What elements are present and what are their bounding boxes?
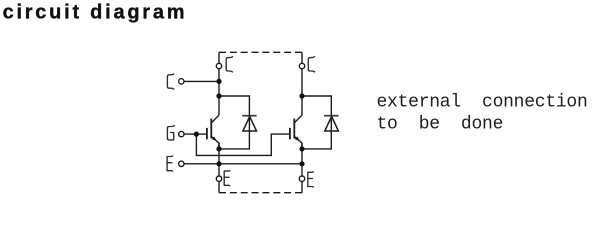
node: external C joins left collector <box>216 79 221 84</box>
terminal external C <box>179 79 184 84</box>
terminal E1 (module bottom left) <box>216 176 221 181</box>
terminal E2 (module bottom right) <box>299 176 304 181</box>
terminal external G <box>179 131 184 136</box>
Q1 emitter arrow <box>212 136 217 141</box>
terminal external E <box>179 161 184 166</box>
transistor Q1 (left IGBT) <box>207 115 219 149</box>
node: gate split G <box>194 132 199 137</box>
label C at terminal C2 <box>308 57 314 72</box>
wire: bottom-right stub from terminal E2 to box edge <box>301 181 303 192</box>
wire: diode D2 bottom branch <box>302 131 331 149</box>
label G (external) <box>167 126 174 140</box>
wire: external C lead <box>184 80 219 82</box>
Q1 body bar <box>210 119 212 139</box>
label C at terminal C1 <box>226 57 232 72</box>
wire: top-left corner stub to terminal C1 <box>218 52 220 63</box>
diode D1 (left freewheel diode) <box>242 110 256 131</box>
module outline dashed box top edge <box>219 51 302 53</box>
diode D2 (right freewheel diode) <box>324 110 338 131</box>
wire: left collector vertical <box>218 69 220 115</box>
labels drawn as technical-font glyphs <box>167 57 314 187</box>
node: D2 top junction <box>299 93 304 98</box>
wire: external E rail <box>184 163 302 165</box>
wire: diode D1 top branch <box>219 96 249 110</box>
wire: bottom-left stub from terminal E1 to box edge <box>218 181 220 192</box>
wire: gate link from node G down and across to gate of Q2 <box>196 134 290 155</box>
label C (external) <box>167 74 173 89</box>
svg-text:external connection: external connection <box>377 92 588 112</box>
node: D1 top junction <box>216 93 221 98</box>
wire: diode D1 bottom branch <box>219 131 249 149</box>
D2 vertical through symbol <box>330 110 332 131</box>
terminal C2 (module top right) <box>299 63 304 68</box>
terminal C1 (module top left) <box>216 63 221 68</box>
label E (external) <box>167 156 173 171</box>
Q1 emitter diagonal <box>211 136 219 149</box>
Q2 gate bar <box>289 128 291 139</box>
label E at terminal E2 <box>308 172 314 187</box>
node: Q2 emitter / D2 anode <box>299 146 304 151</box>
D1 triangle <box>243 116 257 131</box>
D1 vertical through symbol <box>248 110 250 131</box>
Q2 collector diagonal <box>294 115 302 123</box>
wire: right emitter vertical <box>301 143 303 176</box>
node: Q1 emitter / D1 anode <box>216 146 221 151</box>
Q2 emitter diagonal <box>294 136 302 149</box>
Q1 gate bar <box>206 128 208 139</box>
terminal circles <box>179 63 305 181</box>
svg-text:circuit diagram: circuit diagram <box>3 1 188 23</box>
transistor Q2 (right IGBT) <box>290 115 302 149</box>
wire: external G lead to gate of Q1 <box>184 133 207 135</box>
D2 cathode bar <box>324 115 338 117</box>
Q2 emitter arrow <box>295 136 300 141</box>
Q1 collector diagonal <box>211 115 219 123</box>
D1 cathode bar <box>242 115 256 117</box>
junction dots <box>194 79 305 167</box>
wire: diode D2 top branch <box>302 96 331 110</box>
node: E rail right <box>299 161 304 166</box>
node: E rail left <box>216 161 221 166</box>
D2 triangle <box>325 116 339 131</box>
Q2 body bar <box>293 119 295 139</box>
label E at terminal E1 <box>224 171 230 186</box>
wire: right collector vertical <box>301 69 303 115</box>
svg-text:to be done: to be done <box>377 115 504 135</box>
wire: left emitter vertical <box>218 143 220 176</box>
module outline dashed box bottom edge <box>219 192 302 194</box>
wire: top-right corner stub to terminal C2 <box>301 52 303 63</box>
